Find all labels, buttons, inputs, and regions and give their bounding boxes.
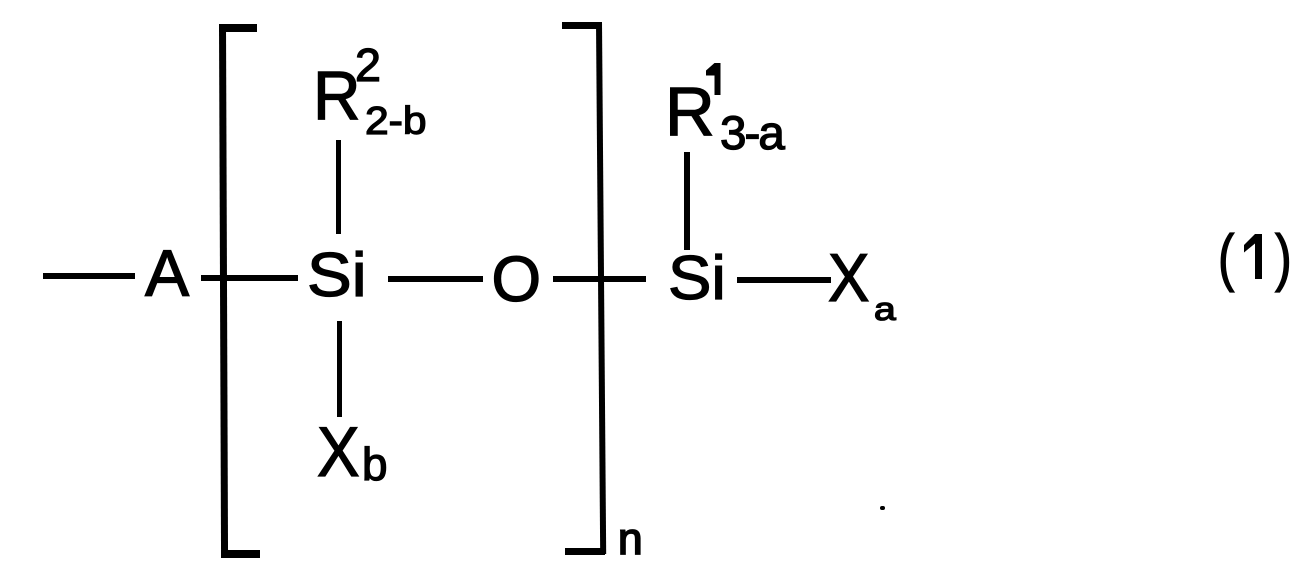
left bracket top arm	[219, 24, 257, 32]
wire: bond Si to Xa	[737, 277, 831, 283]
wire: bond O to Si crossing right bracket	[553, 276, 646, 282]
wire: bond Si to O	[388, 276, 483, 282]
wire: vertical bond R2 to Si	[336, 140, 341, 234]
wire: bond A to Si crossing left bracket	[201, 275, 298, 281]
wire: vertical bond Si to Xb	[337, 321, 342, 417]
node Si: second silicon atom label	[668, 248, 726, 310]
node Xa: atom label X subscript a	[828, 245, 869, 313]
node A: atom label A	[145, 241, 189, 307]
left bracket vertical bar	[219, 24, 228, 557]
right bracket bottom arm	[565, 548, 605, 555]
right bracket top arm	[562, 22, 602, 29]
ink speck artifact	[880, 506, 885, 510]
node O: oxygen atom label	[492, 248, 542, 312]
right bracket vertical bar	[596, 22, 606, 554]
left bracket bottom arm	[221, 550, 260, 558]
node R2: substituent label R superscript 2 subscript 2-b	[313, 62, 361, 131]
node Si: first silicon atom label	[307, 245, 367, 307]
node Xb: atom label X subscript b	[317, 417, 360, 487]
subscript n of right bracket	[618, 518, 643, 562]
node R1: substituent label R superscript 1 subscript 3-a	[665, 78, 715, 147]
wire: leading bond dash left of A	[43, 273, 135, 279]
formula number (1)	[1218, 227, 1234, 290]
wire: vertical bond R1 to Si	[684, 152, 690, 250]
